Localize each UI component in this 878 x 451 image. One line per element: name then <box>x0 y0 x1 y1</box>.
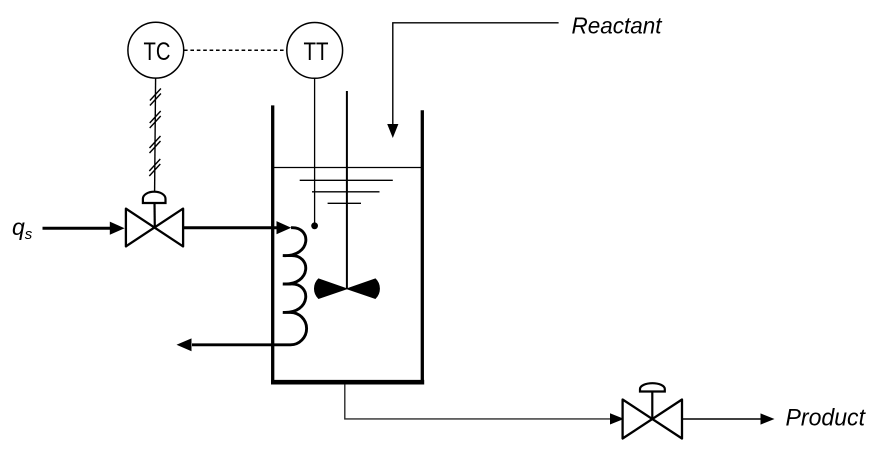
product outlet pipe from tank <box>345 384 610 419</box>
TT sensor probe line <box>314 78 316 223</box>
instrument TT circle <box>287 23 343 79</box>
ripple line 2 <box>312 191 380 193</box>
svg-text:TT: TT <box>304 39 329 66</box>
agitator impeller left blade <box>314 279 346 299</box>
reactant feed line <box>393 23 559 125</box>
coil outlet arrow <box>177 338 192 351</box>
ripple line 3 <box>328 202 361 204</box>
svg-text:TC: TC <box>144 39 171 66</box>
agitator shaft <box>346 91 348 289</box>
valve V2 actuator dome <box>640 383 665 391</box>
tank right wall <box>421 110 424 382</box>
ripple line 1 <box>300 179 393 181</box>
signal line TC to TT (dashed) <box>184 49 287 51</box>
control valve V1 body <box>126 209 183 247</box>
product line out with arrow <box>682 413 775 424</box>
svg-text:Product: Product <box>786 405 867 432</box>
hatch marks on signal line <box>149 89 161 177</box>
tank left wall <box>271 105 274 382</box>
tank bottom <box>271 380 424 385</box>
svg-text:Reactant: Reactant <box>572 12 664 38</box>
product valve V2 body <box>623 400 682 439</box>
valve V2 stem <box>651 391 653 420</box>
arrow into valve V2 <box>610 413 624 424</box>
reactant feed arrow <box>387 124 398 138</box>
agitator impeller right blade <box>347 279 380 299</box>
liquid surface line <box>273 167 422 169</box>
heating coil <box>192 228 307 345</box>
valve V1 actuator dome <box>143 192 166 203</box>
line valve V1 to tank with arrow <box>183 221 291 234</box>
inlet line with arrow into valve V1 <box>43 222 125 235</box>
TT sensor tip dot <box>311 222 318 229</box>
pneumatic signal line TC to valve <box>155 78 156 203</box>
valve V1 stem <box>153 202 156 228</box>
instrument TC circle <box>128 22 184 78</box>
